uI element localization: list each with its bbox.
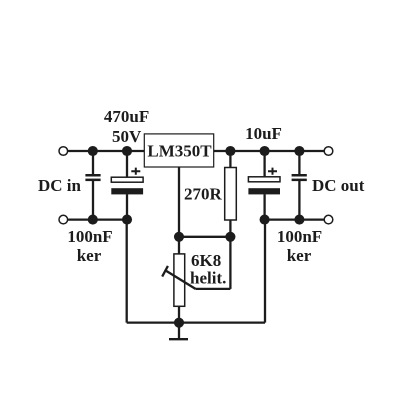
svg-text:50V: 50V	[112, 127, 142, 146]
svg-text:helit.: helit.	[190, 269, 226, 288]
svg-text:10uF: 10uF	[245, 124, 282, 143]
svg-text:6K8: 6K8	[191, 251, 221, 270]
svg-text:270R: 270R	[184, 185, 223, 204]
svg-text:LM350T: LM350T	[147, 141, 212, 160]
svg-text:100nF: 100nF	[67, 227, 112, 246]
svg-text:ker: ker	[287, 246, 312, 265]
svg-text:ker: ker	[77, 246, 102, 265]
svg-text:DC in: DC in	[38, 176, 82, 195]
svg-text:DC out: DC out	[312, 176, 365, 195]
svg-text:470uF: 470uF	[104, 107, 149, 126]
svg-text:100nF: 100nF	[277, 227, 322, 246]
